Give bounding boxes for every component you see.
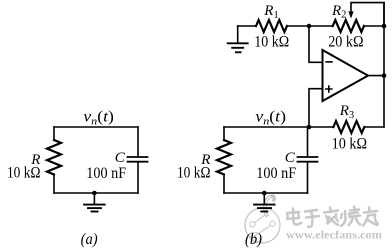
capacitor C (circuit a) (128, 157, 148, 162)
node v_n(t) label (b) (255, 108, 286, 127)
value label 10 kΩ (circuit a) (7, 164, 41, 181)
svg-text:C: C (285, 150, 296, 166)
op-amp U1 (323, 50, 369, 101)
resistor R2 (adjustable) (333, 20, 364, 32)
子 (305, 210, 319, 227)
wire: circuit (a) bottom (54, 192, 138, 194)
svg-text:10 kΩ: 10 kΩ (7, 164, 41, 181)
ground (top left, circuit b) (228, 26, 248, 52)
wire: top node to inverting input (309, 26, 323, 62)
svg-text:100 nF: 100 nF (256, 165, 296, 182)
label R1 (263, 3, 278, 21)
value label 10 kΩ (circuit b) (177, 164, 211, 181)
label C (circuit b) (285, 150, 296, 166)
svg-text:R3: R3 (339, 103, 354, 121)
wire: circuit (a) top v_n(t) node (54, 126, 138, 128)
caption (b) (245, 231, 262, 248)
resistor R1 (256, 20, 287, 32)
label R3 (339, 103, 354, 121)
svg-text:10 kΩ: 10 kΩ (332, 135, 367, 152)
svg-text:R1: R1 (263, 3, 278, 21)
value label 10 kΩ (R3) (332, 135, 367, 152)
svg-text:C: C (115, 150, 126, 166)
友 (363, 208, 378, 226)
wire: node to R3 (309, 126, 333, 128)
svg-text:(b): (b) (245, 231, 262, 248)
value label 100 nF (circuit b) (256, 165, 296, 182)
junction: output node (382, 73, 387, 78)
label R2 (331, 3, 346, 21)
wire: circuit (a) right top (137, 127, 139, 156)
wire: circuit (a) left top (53, 127, 55, 140)
node v_n(t) label (a) (83, 108, 114, 127)
电 (287, 212, 299, 219)
resistor R3 (333, 121, 364, 133)
value label 20 kΩ (R2) (328, 34, 363, 51)
wire: circuit (a) left bottom (53, 175, 55, 194)
caption (a) (81, 231, 98, 248)
junction: inverting input node (307, 24, 312, 29)
wire: circuit (b) left top (223, 127, 225, 140)
wire: circuit (b) cap top (307, 127, 309, 156)
wire: R2 to right rail (364, 25, 384, 27)
op-amp minus sign (326, 61, 332, 63)
wire: circuit (b) bottom (224, 192, 308, 194)
wire: ground to R1 (238, 25, 256, 27)
发 (324, 208, 338, 226)
junction: R2 right / rail (382, 24, 387, 29)
wire: R1 to R2 (287, 25, 333, 27)
svg-text:100 nF: 100 nF (86, 165, 126, 182)
ground (circuit b) (254, 193, 275, 212)
svg-text:10 kΩ: 10 kΩ (177, 164, 211, 181)
junction: circuit (a) ground node (92, 191, 97, 196)
svg-text:10 kΩ: 10 kΩ (254, 34, 289, 51)
wire: circuit (b) left bottom (223, 175, 225, 194)
watermark logo (245, 196, 382, 243)
resistor R (circuit a) (47, 140, 61, 175)
value label 10 kΩ (R1) (254, 34, 289, 51)
svg-text:(a): (a) (81, 231, 98, 248)
wire: R3 to rail (364, 126, 384, 128)
label C (circuit a) (115, 150, 126, 166)
label R (circuit a) (30, 152, 40, 168)
wire: op-amp output (368, 75, 384, 77)
label R (circuit b) (200, 152, 210, 168)
wiper arrow of R2 (351, 3, 384, 26)
烧 (341, 211, 350, 226)
svg-text:R2: R2 (331, 3, 346, 21)
svg-text:vn(t): vn(t) (83, 108, 114, 127)
wire: circuit (b) top v_n(t) node (224, 126, 309, 128)
value label 100 nF (circuit a) (86, 165, 126, 182)
wire: right rail (383, 3, 385, 127)
wire: circuit (a) right bottom (137, 163, 139, 194)
svg-text:www.elecfans.com: www.elecfans.com (286, 230, 382, 242)
ground (circuit a) (84, 193, 105, 212)
junction: circuit (b) ground node (262, 191, 267, 196)
capacitor C (circuit b) (298, 157, 318, 162)
junction: v_n node (b) (307, 125, 312, 130)
svg-text:20 kΩ: 20 kΩ (328, 34, 363, 51)
op-amp plus sign (326, 86, 332, 92)
wire: non-inverting input (309, 89, 323, 127)
wire: circuit (b) cap bottom (307, 163, 309, 194)
resistor R (circuit b) (217, 140, 231, 175)
svg-text:vn(t): vn(t) (255, 108, 286, 127)
